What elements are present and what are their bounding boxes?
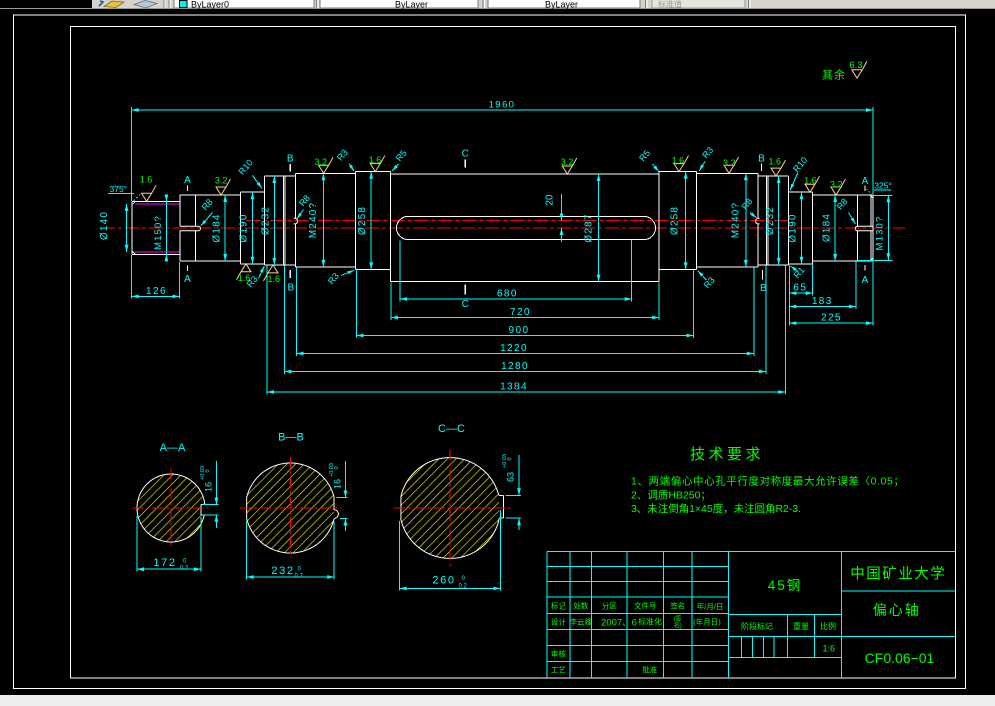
- svg-text:1、两端偏心中心孔平行度对称度最大允许误差〈0.05；: 1、两端偏心中心孔平行度对称度最大允许误差〈0.05；: [631, 475, 904, 488]
- lineweight combobox disabled: [652, 0, 745, 9]
- svg-text:0: 0: [507, 457, 513, 460]
- svg-text:3、未注倒角1×45度，未注圆角R2-3.: 3、未注倒角1×45度，未注圆角R2-3.: [631, 502, 801, 515]
- svg-text:年/月/日: 年/月/日: [697, 601, 724, 611]
- svg-text:Ø258: Ø258: [669, 206, 680, 235]
- section view A-A: [130, 442, 218, 572]
- title block grid: [547, 552, 956, 678]
- svg-text:172: 172: [153, 557, 176, 569]
- svg-text:ByLayer0: ByLayer0: [191, 0, 229, 10]
- title block stage mark row: [741, 621, 836, 631]
- svg-text:分区: 分区: [602, 602, 617, 611]
- shaft left thread end M150: [132, 202, 180, 255]
- svg-text:M240?: M240?: [308, 202, 319, 239]
- section view C-C: [394, 423, 521, 591]
- step face Ø184/Ø190: [240, 192, 242, 264]
- dimension Ø232 right: [778, 176, 780, 265]
- leader R5 right middle/Ø258: [637, 148, 659, 172]
- title block process row: [551, 665, 658, 675]
- svg-text:720: 720: [510, 307, 531, 318]
- svg-text:0.2: 0.2: [295, 573, 304, 579]
- shaft section Ø184 right and thread end: [813, 195, 874, 261]
- svg-text:B: B: [758, 154, 765, 165]
- svg-text:1.6: 1.6: [672, 156, 685, 166]
- svg-text:1220: 1220: [500, 343, 528, 354]
- svg-text:375°: 375°: [110, 184, 128, 194]
- svg-text:1.6: 1.6: [369, 155, 382, 165]
- svg-text:偏心轴: 偏心轴: [873, 602, 921, 618]
- shaft section Ø232 left with relief groove: [264, 176, 295, 265]
- finish 3.2 middle: [561, 157, 577, 174]
- linetype combobox: [488, 0, 640, 10]
- svg-text:A—A: A—A: [160, 442, 186, 454]
- step face M240/groove right: [757, 173, 759, 218]
- svg-text:A: A: [184, 175, 191, 186]
- svg-text:CF0.06−01: CF0.06−01: [865, 650, 935, 666]
- finish 1.6 right Ø258: [672, 156, 689, 172]
- svg-text:3.2: 3.2: [315, 157, 328, 167]
- svg-text:M150?: M150?: [153, 215, 164, 250]
- svg-text:900: 900: [509, 325, 530, 336]
- right end face: [870, 195, 873, 261]
- section cut B-B right: [758, 154, 767, 295]
- svg-text:225: 225: [821, 313, 842, 324]
- finish 1.6 bottom Ø190 left: [237, 264, 252, 283]
- leader R8 right M240 notch: [740, 196, 757, 217]
- svg-text:重量: 重量: [793, 621, 809, 631]
- leader R3 bottom Ø190/Ø232 left: [245, 266, 265, 289]
- svg-text:Ø190: Ø190: [788, 213, 799, 242]
- svg-text:3.2: 3.2: [561, 157, 574, 167]
- section cut A-A left: [184, 175, 191, 285]
- section cut C-C: [462, 149, 469, 311]
- layer combobox: [174, 0, 314, 10]
- toolbar separators: [164, 0, 170, 8]
- svg-text:设计: 设计: [551, 617, 566, 627]
- svg-text:A: A: [862, 275, 869, 286]
- eccentric center hole notch left: [294, 218, 298, 224]
- title block header row labels: [551, 601, 724, 611]
- leader R3 top M240/Ø258 left: [335, 147, 354, 171]
- svg-text:1.6: 1.6: [140, 175, 153, 185]
- svg-text:45钢: 45钢: [768, 578, 803, 593]
- svg-text:C—C: C—C: [438, 423, 465, 435]
- svg-text:阶段标记: 阶段标记: [741, 621, 773, 631]
- svg-text:工艺: 工艺: [551, 666, 566, 675]
- svg-text:技术要求: 技术要求: [690, 446, 764, 463]
- eccentric axis centerline: [247, 220, 789, 222]
- dimension Ø287 middle: [598, 174, 600, 282]
- svg-text:1.6: 1.6: [804, 175, 817, 185]
- step face thread/Ø184: [179, 195, 181, 226]
- svg-text:C: C: [462, 149, 469, 160]
- svg-text:名): 名): [674, 622, 682, 630]
- finish 3.2 right Ø184: [830, 179, 846, 195]
- svg-text:65: 65: [793, 283, 807, 294]
- svg-text:Ø140: Ø140: [99, 211, 110, 240]
- svg-text:B—B: B—B: [278, 432, 304, 444]
- toolbar icon blue diamond: [134, 1, 157, 9]
- svg-text:63: 63: [506, 472, 516, 482]
- shaft section M240 left: [295, 173, 355, 267]
- svg-text:(签: (签: [674, 615, 682, 623]
- finish 3.2 right M240: [723, 157, 738, 173]
- svg-text:ByLayer: ByLayer: [395, 0, 428, 10]
- svg-text:比例: 比例: [820, 621, 836, 631]
- svg-text:680: 680: [497, 289, 518, 300]
- dimension 65: [789, 292, 812, 294]
- section cut A-A right: [862, 176, 869, 286]
- thread runout line right: [856, 195, 858, 226]
- svg-text:Ø184: Ø184: [211, 213, 222, 242]
- dimension 126: [132, 295, 180, 297]
- svg-text:2007、6: 2007、6: [601, 618, 637, 629]
- svg-text:其余: 其余: [822, 68, 846, 82]
- svg-text:20: 20: [544, 194, 555, 206]
- leader R3 top Ø258/M240 right: [699, 145, 715, 171]
- dimension Ø184 right: [834, 195, 836, 261]
- leader R8 right slot: [835, 196, 856, 224]
- svg-text:183: 183: [812, 296, 833, 307]
- dimension 680: [400, 298, 632, 300]
- dimension Ø190 left: [252, 192, 254, 264]
- step face Ø190/Ø184 right: [812, 192, 814, 264]
- svg-text:处数: 处数: [573, 601, 588, 611]
- step face M240/Ø258 left: [355, 172, 357, 270]
- general roughness 6.3: [822, 60, 867, 82]
- step face middle/Ø258 right: [658, 172, 660, 282]
- extension lines M130 right: [858, 195, 893, 260]
- leader R8 left slot: [200, 197, 215, 226]
- shaft section Ø232 right with relief groove: [758, 176, 789, 265]
- finish 1.6 left Ø258: [369, 155, 385, 171]
- svg-text:M240?: M240?: [730, 202, 741, 239]
- svg-text:232: 232: [271, 565, 294, 577]
- center hole slot right: [855, 226, 873, 231]
- shaft section M240 right: [697, 173, 758, 267]
- toolbar combo separators: [317, 0, 751, 8]
- svg-text:Ø190: Ø190: [239, 213, 250, 242]
- dimension Ø232 left: [273, 176, 275, 265]
- finish 1.6 left thread: [140, 175, 156, 202]
- extension lines right end: [789, 107, 873, 326]
- leader R3 bottom M240/Ø258 left: [326, 270, 354, 286]
- svg-text:126: 126: [146, 286, 167, 297]
- dimension 1280: [284, 371, 765, 373]
- svg-text:2、调质HB250；: 2、调质HB250；: [631, 489, 711, 501]
- finish 3.2 left M240: [315, 157, 334, 173]
- dimension M150 thread: [165, 202, 167, 255]
- svg-text:A: A: [862, 176, 869, 187]
- shaft section Ø190 right: [789, 192, 813, 264]
- svg-text:C: C: [462, 299, 469, 310]
- svg-text:0.2: 0.2: [180, 566, 189, 572]
- step face Ø232/Ø190 right: [788, 176, 790, 265]
- svg-text:Ø232: Ø232: [261, 206, 272, 235]
- dimension Ø190 right: [801, 192, 803, 264]
- step face Ø258/M240 right: [696, 172, 698, 270]
- svg-text:16: 16: [203, 482, 213, 492]
- dimension M130 right: [887, 195, 889, 260]
- svg-text:A: A: [184, 274, 191, 285]
- finish 1.6 bottom Ø232 left: [264, 265, 280, 284]
- leader R10 right: [790, 155, 809, 190]
- svg-text:Ø287: Ø287: [583, 213, 594, 242]
- svg-text:李云峰: 李云峰: [570, 617, 593, 627]
- svg-text:ByLayer: ByLayer: [545, 0, 578, 10]
- dimension Ø258 left: [370, 172, 372, 270]
- svg-text:16: 16: [332, 479, 342, 489]
- dimension 1960: [132, 109, 873, 111]
- toolbar strip: [0, 0, 995, 9]
- shaft section Ø258 right: [659, 172, 697, 270]
- chamfer line right end: [870, 196, 872, 226]
- color combobox: [320, 0, 478, 10]
- bottom status strip: [0, 695, 995, 706]
- dimension M240 left: [322, 173, 324, 267]
- section view B-B: [240, 432, 347, 580]
- dimension 900: [357, 335, 694, 337]
- shaft section Ø184 left: [180, 195, 241, 261]
- dimension 1220: [297, 353, 754, 355]
- step face Ø190/Ø232: [263, 176, 265, 265]
- svg-text:文件号: 文件号: [634, 601, 657, 611]
- svg-text:标记: 标记: [551, 601, 566, 611]
- svg-text:1:6: 1:6: [823, 644, 836, 654]
- dimension 720: [391, 317, 659, 319]
- chamfer angle 325 right: [867, 181, 892, 196]
- dimension Ø258 right: [685, 172, 687, 270]
- leader R1 bottom Ø190 right: [791, 265, 807, 280]
- extension lines left: [132, 107, 180, 299]
- svg-text:B: B: [287, 283, 294, 294]
- svg-text:标准值: 标准值: [658, 0, 682, 9]
- extension lines bottom ladder: [267, 240, 785, 394]
- svg-text:1.6: 1.6: [768, 156, 781, 166]
- finish 3.2 left Ø184: [215, 176, 231, 196]
- svg-text:B: B: [287, 154, 294, 165]
- svg-text:3.2: 3.2: [215, 176, 228, 186]
- step face Ø258/middle: [390, 172, 392, 282]
- svg-text:6.3: 6.3: [849, 60, 862, 71]
- leader R5 left Ø258/middle: [392, 148, 409, 171]
- dimension 183: [789, 306, 856, 308]
- main axis centerline: [101, 227, 905, 229]
- center hole slot left: [180, 226, 201, 231]
- leader R3 bottom M240 right: [698, 271, 717, 290]
- svg-text:标准化: 标准化: [638, 617, 662, 627]
- svg-text:审核: 审核: [551, 649, 566, 659]
- svg-text:260: 260: [432, 575, 455, 587]
- thread minor lines magenta: [135, 204, 180, 252]
- chamfer line on Ø184 left: [194, 195, 196, 226]
- svg-text:1280: 1280: [501, 361, 529, 372]
- svg-text:批准: 批准: [642, 665, 657, 675]
- shaft section Ø258 left: [356, 172, 391, 270]
- svg-text:0.2: 0.2: [459, 583, 468, 589]
- svg-text:0: 0: [334, 466, 340, 469]
- dimension 20 eccentricity: [544, 194, 563, 242]
- svg-text:(年月日): (年月日): [693, 617, 721, 627]
- leader R10 left: [237, 158, 262, 189]
- dimension Ø184 left: [224, 195, 226, 261]
- svg-text:0: 0: [205, 469, 211, 472]
- svg-text:Ø258: Ø258: [357, 206, 368, 235]
- finish 1.6 right Ø232: [768, 156, 785, 176]
- dimension 1384: [267, 391, 785, 393]
- svg-text:M130?: M130?: [875, 215, 886, 250]
- svg-text:Ø232: Ø232: [765, 206, 776, 235]
- keyway slot: [397, 216, 656, 239]
- title block design row: [551, 615, 721, 630]
- svg-text:1.6: 1.6: [267, 274, 280, 284]
- svg-text:3.2: 3.2: [723, 158, 736, 168]
- svg-text:中国矿业大学: 中国矿业大学: [850, 566, 946, 583]
- finish 1.6 right Ø190: [804, 175, 819, 192]
- toolbar icon yellow layers: [99, 1, 124, 8]
- section cut B-B left: [287, 154, 295, 294]
- svg-text:1384: 1384: [500, 382, 528, 393]
- dimension M240 right: [745, 173, 747, 267]
- svg-text:签名: 签名: [670, 601, 685, 611]
- svg-text:3.2: 3.2: [830, 180, 843, 190]
- eccentric center hole notch right: [756, 218, 760, 224]
- dimension Ø140: [126, 204, 128, 252]
- chamfer angle 375 left: [108, 184, 140, 201]
- shaft section Ø190 left: [241, 192, 265, 264]
- dimension 225: [789, 322, 873, 324]
- svg-text:Ø184: Ø184: [821, 213, 832, 242]
- step face groove/M240 left: [294, 173, 296, 218]
- svg-text:325°: 325°: [874, 181, 892, 191]
- svg-text:1960: 1960: [489, 100, 516, 111]
- shaft middle section Ø287: [391, 174, 660, 282]
- leader R8 left M240 notch: [297, 193, 312, 219]
